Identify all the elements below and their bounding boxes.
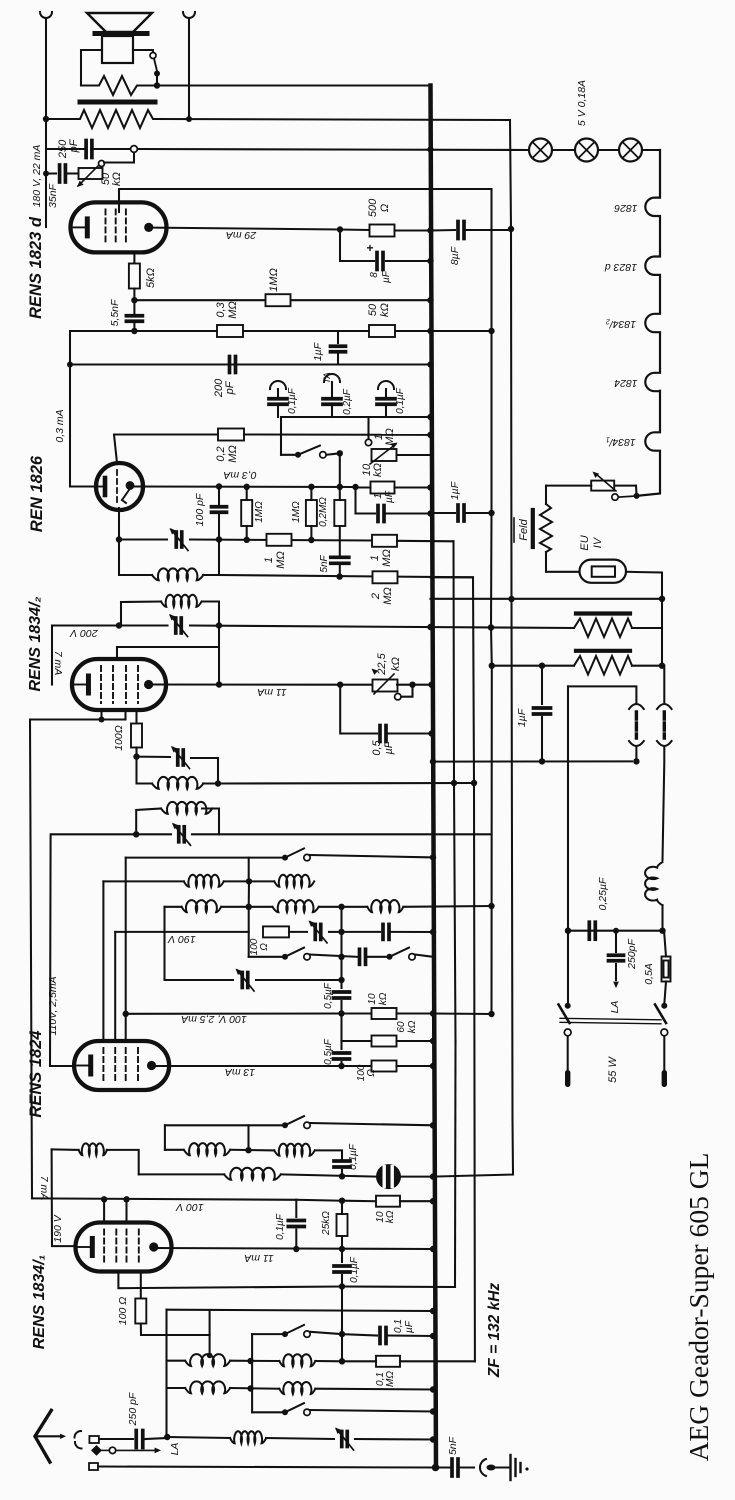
- svg-text:5 V 0,18A: 5 V 0,18A: [576, 80, 588, 126]
- resistor 100 Ohm anode: [342, 1065, 372, 1067]
- wire 1834-2 anode line 11mA: [149, 683, 340, 685]
- switch rf band y1412: [252, 1411, 283, 1413]
- inductor IFT1 secondary: [137, 757, 153, 784]
- resistor 1MOhm avc filter: [372, 535, 397, 547]
- svg-text:1MΩ: 1MΩ: [291, 501, 302, 523]
- speaker magnet box: [102, 36, 133, 63]
- iron core disc: [376, 1164, 401, 1189]
- wire choke2 left to rail492: [491, 628, 574, 666]
- svg-text:RENS 1834/₁: RENS 1834/₁: [31, 1255, 48, 1350]
- svg-text:IV: IV: [592, 536, 604, 548]
- svg-text:5nF: 5nF: [319, 554, 330, 572]
- capacitor 250pF mains: [613, 928, 619, 934]
- choke 2 with core: [576, 649, 630, 653]
- svg-text:LA: LA: [609, 1001, 621, 1014]
- switch band y957: [249, 956, 283, 958]
- svg-text:kΩ: kΩ: [111, 172, 123, 186]
- capacitor 1uF af: [356, 487, 376, 514]
- switch band right y957: [387, 954, 393, 960]
- svg-text:100 pF: 100 pF: [194, 493, 206, 526]
- arrow LA input: [116, 1449, 155, 1451]
- svg-text:kΩ: kΩ: [407, 1020, 418, 1033]
- svg-text:1826: 1826: [614, 202, 638, 214]
- node anode divider: [131, 297, 137, 303]
- svg-text:100 V: 100 V: [175, 1201, 203, 1213]
- inductor antenna coil: [230, 1431, 266, 1443]
- resistor 5kOhm: [129, 264, 140, 289]
- inductor IFT2 secondary: [152, 568, 203, 580]
- wire switch drop: [280, 417, 282, 455]
- wire line y599: [431, 598, 663, 600]
- svg-text:13 mA: 13 mA: [225, 1066, 255, 1078]
- svg-text:8: 8: [369, 272, 380, 278]
- svg-text:5kΩ: 5kΩ: [145, 268, 157, 288]
- svg-text:25kΩ: 25kΩ: [321, 1211, 332, 1236]
- svg-text:0,2µF: 0,2µF: [342, 388, 353, 415]
- svg-text:0,1µF: 0,1µF: [287, 387, 298, 414]
- svg-text:0,5µF: 0,5µF: [323, 982, 334, 1009]
- wire line y173 left: [46, 172, 56, 174]
- wire 100V screen line: [126, 1012, 342, 1014]
- inductor rf coil A3: [274, 1144, 315, 1156]
- resistor 0.2MOhm det load: [116, 433, 226, 435]
- svg-text:kΩ: kΩ: [372, 463, 384, 477]
- resistor 0.3MOhm: [217, 325, 243, 337]
- wire primary loop right: [133, 50, 153, 52]
- wire grid rail x103 down: [102, 881, 104, 1044]
- svg-text:MΩ: MΩ: [275, 551, 287, 569]
- wire avc rail x455 upper: [454, 541, 456, 1041]
- resistor 50kOhm: [369, 325, 395, 337]
- svg-text:0,1: 0,1: [393, 1319, 404, 1333]
- svg-text:1: 1: [263, 557, 275, 563]
- wire primary loop left: [81, 50, 102, 86]
- wire 1824 cathode lead: [50, 1065, 75, 1067]
- wire rail x=510 down: [510, 120, 513, 1120]
- svg-text:kΩ: kΩ: [385, 1210, 396, 1223]
- svg-text:1823 d: 1823 d: [604, 261, 637, 273]
- svg-text:7 mA: 7 mA: [38, 1176, 50, 1201]
- wire grid rail x=491 down: [490, 189, 493, 628]
- svg-text:RENS 1834/₂: RENS 1834/₂: [27, 596, 44, 691]
- svg-text:0,5: 0,5: [371, 739, 383, 755]
- svg-text:110V, 2,5mA: 110V, 2,5mA: [47, 976, 59, 1035]
- svg-text:RENS 1823 d: RENS 1823 d: [27, 216, 45, 319]
- svg-text:Feld: Feld: [518, 518, 530, 540]
- resistor 1MOhm diode load b: [306, 500, 317, 526]
- svg-text:0,3 mA: 0,3 mA: [54, 409, 66, 442]
- inductor osc coil B: [274, 875, 314, 887]
- ground symbol: [496, 1466, 510, 1468]
- capacitor 5nF: [339, 526, 341, 555]
- inductor rf coil A1: [79, 1143, 107, 1155]
- svg-text:MΩ: MΩ: [382, 587, 394, 605]
- capacitor 250pF antenna: [99, 1438, 133, 1440]
- wire y1200 to 10k: [296, 1199, 342, 1202]
- capacitor 0.1uF band: [342, 1334, 377, 1335]
- wire det coil loop: [119, 540, 152, 576]
- capacitor 8uF smoothing: [431, 229, 456, 232]
- rectifier tube EU IV: [546, 552, 580, 572]
- svg-text:0,2MΩ: 0,2MΩ: [318, 497, 329, 527]
- svg-text:µF: µF: [381, 270, 392, 283]
- capacitor 0.1uF second: [378, 381, 394, 389]
- svg-text:50: 50: [367, 303, 379, 316]
- capacitor 0.1uF anode bypass: [341, 1249, 343, 1262]
- wire lamp2-3: [598, 149, 619, 151]
- wire y834 right: [219, 833, 492, 835]
- ground clip hook: [480, 1459, 486, 1476]
- svg-text:2: 2: [370, 593, 382, 600]
- svg-text:µF: µF: [384, 490, 395, 503]
- wire trim to node: [190, 540, 372, 541]
- fuse 0.5A: [662, 957, 671, 982]
- trimmer osc series: [313, 924, 317, 939]
- wire 1826 cathode lead: [70, 485, 96, 487]
- svg-text:250 pF: 250 pF: [127, 1392, 139, 1426]
- svg-text:100Ω: 100Ω: [113, 725, 125, 751]
- svg-text:1: 1: [373, 493, 384, 499]
- svg-text:0,25µF: 0,25µF: [597, 877, 609, 910]
- switch rf band y1334: [251, 1334, 253, 1412]
- svg-text:MΩ: MΩ: [227, 301, 239, 319]
- switch TA: [295, 452, 301, 458]
- wire osc junction drop: [248, 858, 250, 882]
- capacitor 250pF: [84, 141, 88, 158]
- trimmer IFT1 primary: [177, 827, 181, 842]
- wire 1826 grid top lead: [114, 435, 117, 464]
- capacitor osc fixed: [381, 924, 385, 939]
- wire grid2 top lead: [119, 189, 492, 212]
- mains switch pole 1: [567, 931, 569, 1004]
- wire cathode line y1310: [167, 1310, 434, 1311]
- svg-text:60: 60: [396, 1021, 407, 1033]
- capacitor 0.5uF osc b: [340, 1041, 342, 1049]
- svg-text:0,5µF: 0,5µF: [323, 1038, 334, 1065]
- svg-text:5,5nF: 5,5nF: [109, 299, 121, 326]
- svg-text:190 V: 190 V: [167, 933, 195, 945]
- inductor rf coil C1: [167, 1360, 186, 1362]
- field coil Feld: [540, 504, 552, 552]
- wire lamp1-2: [552, 149, 575, 151]
- mains switch pole 2: [661, 1003, 667, 1009]
- potentiometer 50kOhm: [79, 168, 103, 179]
- svg-text:200 V: 200 V: [69, 627, 98, 639]
- terminal earth post: [89, 1463, 98, 1470]
- wire y834 to cathode rail: [50, 834, 136, 1066]
- svg-text:REN 1826: REN 1826: [28, 455, 46, 532]
- rheostat heater: [634, 493, 640, 499]
- lamp dial 2 scale: [575, 139, 598, 162]
- inductor IFT2 primary: [120, 602, 122, 626]
- switch link bar: [560, 1018, 661, 1020]
- resistor voice coil zigzag: [81, 76, 157, 95]
- lamp dial 1: [529, 139, 552, 162]
- resistor output transformer winding zigzag: [46, 110, 156, 128]
- resistor 2MOhm: [373, 571, 398, 583]
- svg-text:55 W: 55 W: [607, 1056, 619, 1083]
- lamp dial 3: [619, 139, 642, 162]
- svg-text:Ω: Ω: [379, 204, 391, 212]
- tube REN 1826: [96, 463, 143, 510]
- wire lamp3 to heater chain: [642, 150, 660, 197]
- wire gang rail x568: [567, 686, 569, 930]
- wire osc switch line y857: [126, 857, 283, 859]
- wire disc to bus: [401, 1176, 433, 1178]
- trimmer IFT2 primary: [174, 618, 178, 633]
- resistor 0.2MOhm avc: [334, 500, 345, 526]
- svg-text:ZF = 132 kHz: ZF = 132 kHz: [486, 1283, 503, 1379]
- wire 1834-2 grid top: [117, 646, 219, 648]
- trimmer padder osc: [240, 973, 244, 988]
- svg-text:5nF: 5nF: [447, 1436, 459, 1455]
- svg-text:MΩ: MΩ: [384, 428, 396, 446]
- svg-text:0,5A: 0,5A: [643, 963, 655, 985]
- capacitor 0.1uF rf: [334, 1159, 350, 1163]
- potentiometer 22.5kOhm: [337, 682, 343, 688]
- wire osc row2 y907: [165, 906, 182, 908]
- svg-text:0,1µF: 0,1µF: [348, 1143, 359, 1170]
- wire rf row A: [52, 1148, 79, 1151]
- svg-text:1MΩ: 1MΩ: [254, 501, 265, 523]
- wire detector line y487: [134, 485, 356, 488]
- wire 2M line y577: [219, 575, 473, 577]
- capacitor 200pF: [228, 357, 232, 373]
- wire 1834-2 cathode bottom: [100, 710, 102, 720]
- tuning gang section a: [568, 686, 636, 703]
- capacitor 1uF mains: [433, 760, 632, 762]
- svg-text:11 mA: 11 mA: [244, 1252, 274, 1264]
- resistor 1MOhm grid leak: [266, 294, 291, 306]
- tube RENS 1823 d: [71, 202, 167, 252]
- switch rf y1125: [165, 1124, 283, 1126]
- wire rheostat to field coil: [546, 485, 591, 487]
- capacitor 5.5nF: [133, 300, 135, 313]
- resistor 1MOhm diode load a: [241, 500, 252, 526]
- svg-text:AEG Geador-Super 605 GL: AEG Geador-Super 605 GL: [683, 1153, 714, 1462]
- wire B+ line y626 long: [51, 626, 53, 685]
- wire cathode resistor lead: [133, 252, 135, 264]
- svg-text:22,5: 22,5: [376, 652, 388, 675]
- svg-text:10: 10: [367, 993, 378, 1005]
- wire speaker node to bus top: [157, 84, 431, 86]
- capacitor 5nF ground: [436, 1466, 450, 1468]
- terminal diamond: [91, 1445, 102, 1456]
- wire rf row B: [139, 1173, 224, 1175]
- svg-text:1834/₁: 1834/₁: [606, 436, 636, 448]
- terminal post left: [40, 12, 52, 18]
- svg-text:RENS 1824: RENS 1824: [27, 1030, 45, 1117]
- wire grid return to avc rail: [218, 782, 474, 785]
- wire feedback corner: [70, 331, 134, 487]
- svg-text:LA: LA: [169, 1443, 181, 1456]
- svg-text:100 Ω: 100 Ω: [117, 1297, 129, 1325]
- wire coil tap x209: [209, 1310, 211, 1355]
- svg-text:0,3: 0,3: [215, 301, 227, 317]
- svg-text:pF: pF: [224, 380, 236, 395]
- trimmer IFT1 secondary: [137, 756, 171, 758]
- svg-text:1: 1: [369, 555, 381, 561]
- wire switch to divider: [326, 453, 340, 455]
- capacitor 8uF electrolytic: [375, 253, 379, 270]
- svg-text:µF: µF: [383, 740, 395, 754]
- tube RENS 1834/2: [72, 659, 166, 710]
- inductor rf coil A2: [165, 1149, 184, 1151]
- wire EU IV to rail: [626, 572, 662, 599]
- resistor 10kOhm: [371, 482, 395, 494]
- capacitor 100pF: [218, 487, 220, 505]
- wire 190V loop: [165, 907, 234, 980]
- svg-text:1824: 1824: [614, 377, 638, 389]
- svg-text:µF: µF: [404, 1320, 415, 1333]
- resistor 10kOhm screen: [372, 1008, 397, 1019]
- svg-text:7 mA: 7 mA: [52, 651, 64, 676]
- antenna coupling hook: [75, 1431, 82, 1449]
- wire anode line 29mA: [154, 228, 340, 230]
- wire cathode return y1287: [118, 1272, 342, 1289]
- svg-text:500: 500: [367, 198, 379, 217]
- wire grid rail x125 down: [125, 858, 127, 1044]
- wire antenna line y1437: [167, 1437, 230, 1438]
- svg-text:kΩ: kΩ: [379, 303, 391, 317]
- tube RENS 1834/1: [76, 1223, 172, 1272]
- terminal post right: [183, 12, 195, 18]
- svg-text:1µF: 1µF: [312, 342, 324, 361]
- wire 8uF+ branch: [340, 230, 374, 262]
- wire osc rail x341 down: [340, 907, 342, 988]
- choke 1 with core: [576, 611, 630, 615]
- transformer core bar: [80, 100, 155, 105]
- inductor rf coil D2: [279, 1382, 315, 1394]
- wire osc coil line y881: [103, 880, 183, 882]
- svg-text:29 mA: 29 mA: [226, 229, 257, 241]
- capacitor 1uF coupling: [337, 331, 339, 343]
- svg-text:0,3 mA: 0,3 mA: [223, 469, 256, 481]
- svg-text:11 mA: 11 mA: [257, 686, 287, 698]
- wire winding to x510 rail: [156, 119, 510, 120]
- node circle 250pF tap: [131, 146, 138, 153]
- wire mains line y931: [568, 930, 663, 932]
- inductor IFT1 primary: [136, 809, 161, 835]
- wire avc rail x=473: [431, 577, 475, 1361]
- capacitor 1uF right: [431, 512, 456, 514]
- resistor 60kOhm: [340, 1014, 342, 1042]
- svg-text:+: +: [366, 241, 373, 255]
- svg-text:MΩ: MΩ: [385, 1371, 396, 1387]
- capacitor 0.1uF avc: [295, 1200, 297, 1217]
- svg-text:100 V, 2,5 mA: 100 V, 2,5 mA: [181, 1013, 247, 1025]
- wire line y417: [281, 416, 431, 418]
- inductor rf coil B1: [224, 1168, 281, 1180]
- svg-text:250pF: 250pF: [626, 939, 638, 970]
- resistor 100 Ohm osc: [115, 931, 249, 933]
- wire 1834-1 anode line: [154, 1248, 433, 1249]
- tube RENS 1824: [74, 1041, 169, 1090]
- capacitor 0.25uF: [587, 922, 591, 939]
- svg-text:0,2: 0,2: [215, 446, 227, 461]
- wire ant rail x167: [165, 1310, 167, 1437]
- capacitor 0.5uF anode: [340, 685, 377, 734]
- svg-text:1MΩ: 1MΩ: [268, 268, 280, 292]
- wire bus to x512 corner: [433, 1120, 513, 1177]
- wire avc grid line y1199: [32, 1198, 296, 1199]
- resistor 500 Ohm: [370, 225, 395, 237]
- svg-text:kΩ: kΩ: [378, 992, 389, 1005]
- capacitor 35nF: [58, 165, 62, 182]
- terminal antenna post: [89, 1436, 99, 1443]
- wire line y149 left: [46, 148, 84, 150]
- speaker cone: [87, 13, 152, 32]
- trimmer antenna: [340, 1432, 344, 1447]
- svg-text:190 V: 190 V: [52, 1214, 64, 1242]
- inductor mains ant coil: [645, 862, 662, 905]
- svg-text:1834/₂: 1834/₂: [606, 318, 636, 330]
- wire line y364: [70, 363, 431, 365]
- svg-text:1µF: 1µF: [516, 708, 528, 727]
- wire line y331: [134, 330, 491, 332]
- tuning gang section b: [663, 666, 665, 703]
- svg-text:pF: pF: [68, 138, 80, 153]
- wire det secondary line y540: [118, 508, 120, 540]
- svg-text:MΩ: MΩ: [381, 549, 393, 567]
- inductor osc coil A: [184, 875, 224, 887]
- wire 1824 anode line 13mA: [152, 1065, 342, 1067]
- svg-text:1µF: 1µF: [449, 481, 461, 500]
- capacitor 0.2uF TA input: [324, 374, 340, 382]
- mains plug prong 2: [662, 1070, 667, 1087]
- mains plug prong 1: [565, 1070, 570, 1087]
- switch output tap: [150, 53, 156, 59]
- svg-text:0,1µF: 0,1µF: [395, 387, 406, 414]
- wire lamp feed line y149: [138, 149, 530, 150]
- inductor osc coil C: [182, 900, 222, 912]
- antenna: [35, 1410, 51, 1462]
- svg-text:180 V, 22 mA: 180 V, 22 mA: [31, 145, 43, 208]
- svg-text:kΩ: kΩ: [390, 657, 402, 671]
- resistor 10kOhm rf anode: [342, 1200, 376, 1203]
- inductor rf coil D1: [247, 1385, 253, 1391]
- svg-text:Ω: Ω: [259, 943, 270, 951]
- svg-text:0,1µF: 0,1µF: [349, 1256, 360, 1283]
- svg-text:Ω: Ω: [366, 1069, 377, 1077]
- bus chassis line: [431, 86, 437, 1468]
- wire hook2 vertical x=189: [188, 18, 190, 119]
- wire rail x52 to cathode: [52, 1149, 75, 1246]
- resistor 0.1MOhm: [376, 1356, 400, 1367]
- resistor 1MOhm af coupling: [267, 534, 292, 546]
- wire line y300: [134, 299, 430, 301]
- svg-text:0,1µF: 0,1µF: [275, 1213, 286, 1240]
- capacitor 0.5uF osc a: [334, 990, 350, 994]
- svg-text:35nF: 35nF: [47, 183, 59, 208]
- wire ground line y1466: [98, 1467, 436, 1468]
- inductor osc coil E: [367, 900, 403, 912]
- heater chain with humps: [637, 150, 660, 496]
- inductor rf coil C2: [279, 1354, 315, 1366]
- svg-text:MΩ: MΩ: [227, 445, 239, 463]
- wire vertical left rail x=46: [45, 18, 47, 227]
- svg-text:EU: EU: [579, 535, 591, 550]
- trimmer secondary: [174, 532, 178, 547]
- resistor 100 Ohm grid: [135, 710, 137, 724]
- capacitor 0.1uF with grid cap: [270, 381, 286, 389]
- inductor osc coil D: [272, 900, 318, 912]
- svg-text:8µF: 8µF: [449, 246, 461, 265]
- resistor 25kOhm: [337, 1214, 348, 1236]
- capacitor band pad: [358, 949, 362, 964]
- potentiometer 1MOhm volume: [365, 439, 371, 445]
- resistor 100 Ohm rf cathode: [140, 1272, 142, 1299]
